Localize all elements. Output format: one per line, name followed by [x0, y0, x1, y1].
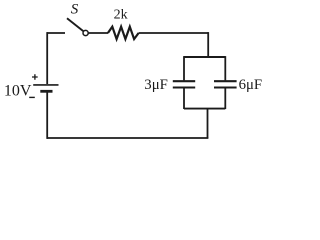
wire: left capacitor branch lower lead: [183, 88, 185, 110]
svg-text:6μF: 6μF: [239, 77, 263, 93]
battery + sign: [32, 74, 38, 80]
wire: left vertical from battery - plate down to bottom corner: [46, 92, 48, 139]
wire: right capacitor branch lower lead: [224, 88, 226, 110]
wire: left capacitor branch upper lead: [183, 56, 185, 80]
capacitor C1 top plate: [173, 80, 195, 82]
svg-text:3μF: 3μF: [144, 77, 168, 93]
wire: switch to resistor: [88, 32, 108, 34]
wire: resistor to top-right corner: [139, 32, 209, 34]
capacitor C2 top plate: [214, 80, 237, 82]
wire: top-left horizontal from corner to switch left terminal: [47, 32, 65, 34]
svg-text:S: S: [71, 1, 79, 17]
resistor 2k zigzag: [108, 27, 139, 39]
wire: capacitor bank bottom bar: [184, 108, 225, 110]
wire: left vertical from top corner down to battery + plate: [46, 32, 48, 84]
switch S contact circle: [83, 30, 88, 35]
svg-text:2k: 2k: [114, 8, 128, 23]
wire: top-right vertical stub down to capacitor top bar: [207, 32, 209, 57]
capacitor C2 bottom plate: [214, 86, 237, 88]
wire: bottom horizontal: [47, 137, 208, 139]
wire: capacitor bank top bar: [184, 56, 225, 58]
wire: bottom-right vertical stub down to bottom wire: [207, 109, 209, 138]
capacitor C1 bottom plate: [173, 86, 195, 88]
switch S blade: [67, 18, 83, 31]
battery V1 long plate (+): [33, 84, 58, 86]
wire: right capacitor branch upper lead: [224, 56, 226, 80]
battery - sign: [29, 96, 35, 98]
svg-text:10V: 10V: [4, 83, 32, 100]
battery V1 short thick plate (-): [40, 90, 52, 93]
